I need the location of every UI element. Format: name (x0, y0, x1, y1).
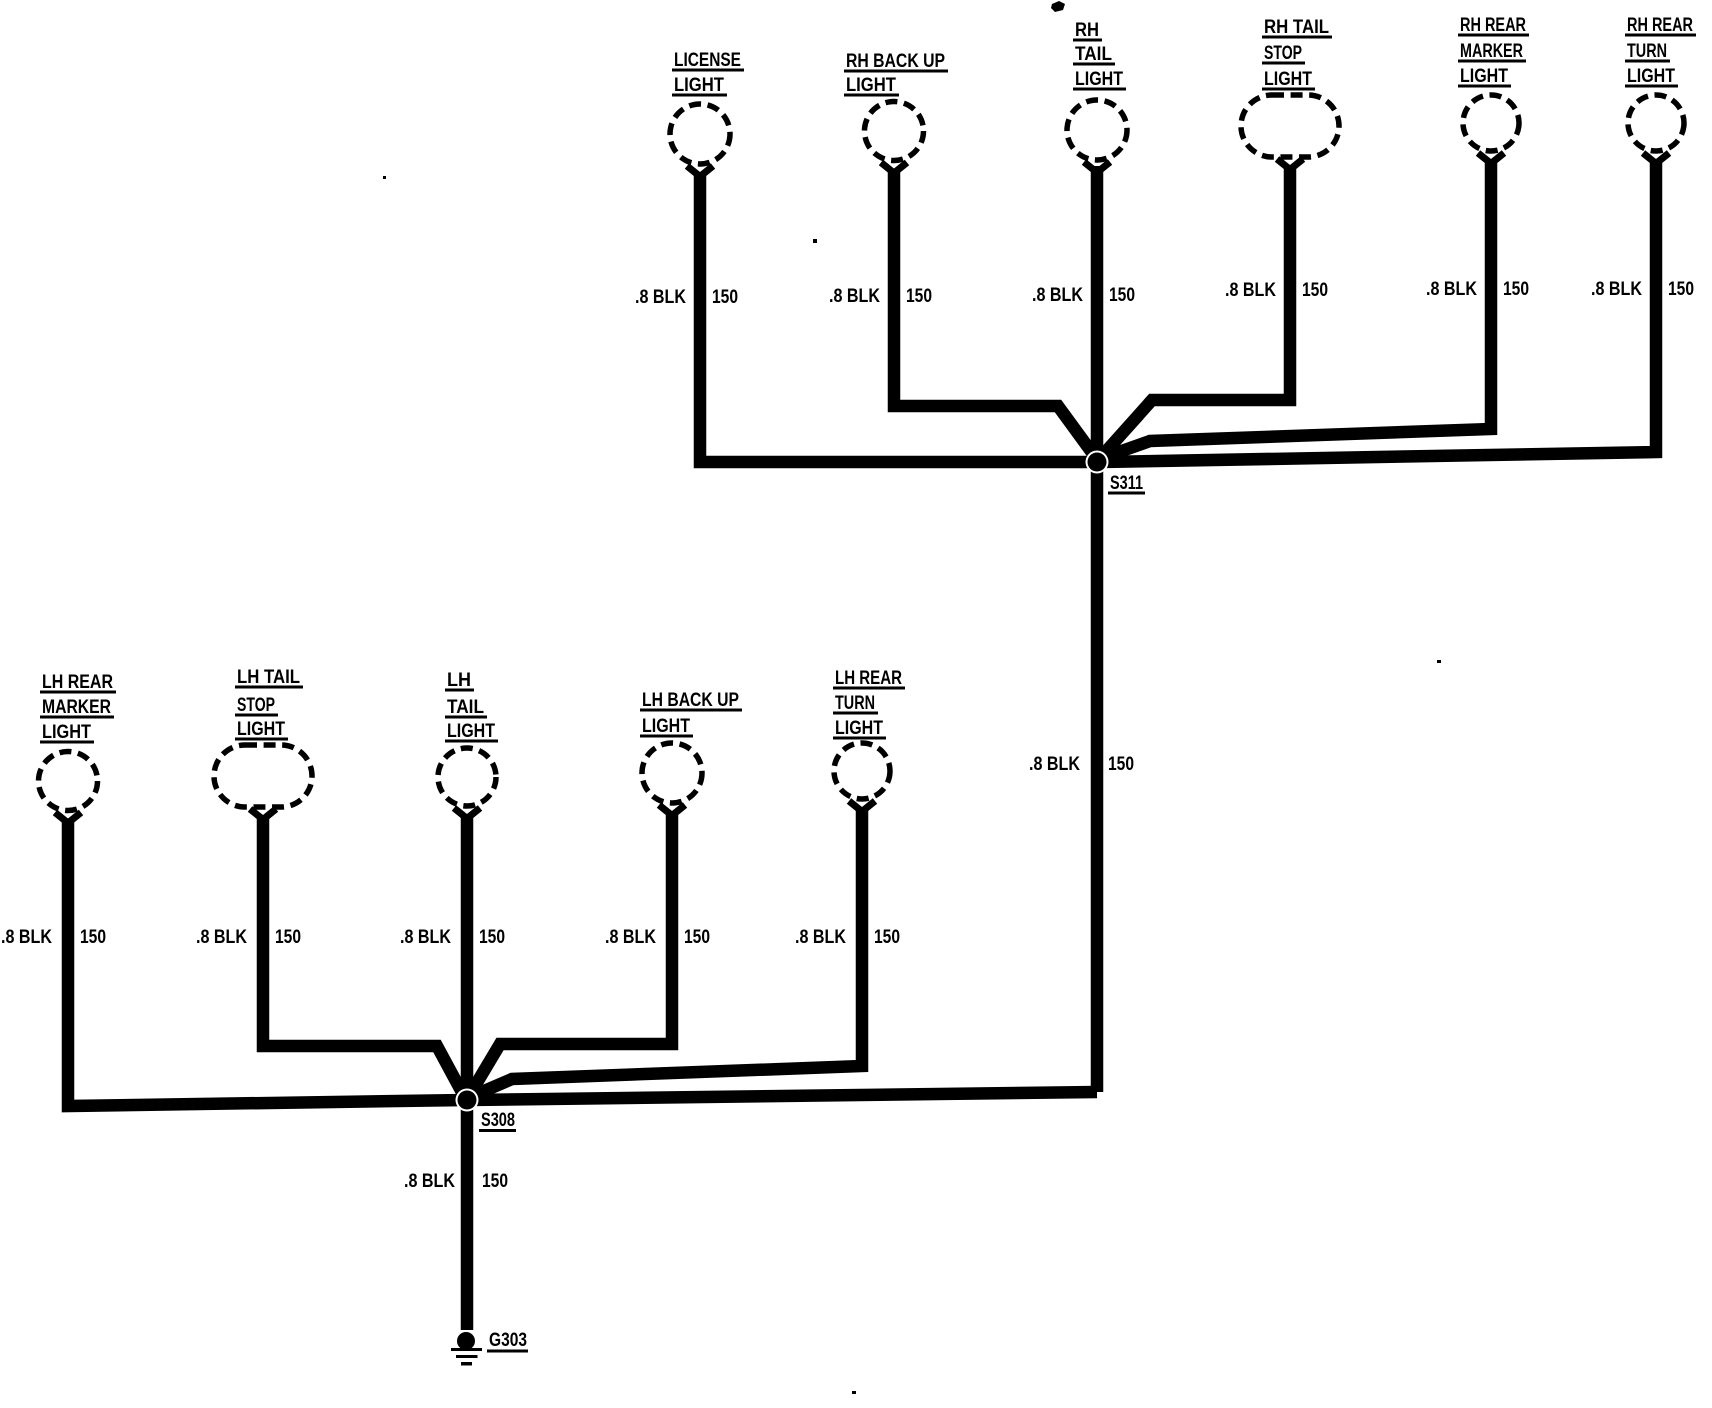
svg-text:LIGHT: LIGHT (642, 716, 690, 737)
svg-text:LIGHT: LIGHT (674, 75, 724, 96)
wire LH tail stop light to S308 (263, 817, 464, 1096)
svg-text:LICENSE: LICENSE (674, 50, 741, 71)
svg-text:.8 BLK: .8 BLK (1, 927, 52, 948)
svg-text:RH: RH (1075, 20, 1099, 41)
svg-text:LH: LH (447, 670, 471, 691)
svg-text:150: 150 (906, 286, 932, 307)
svg-text:.8 BLK: .8 BLK (1426, 279, 1477, 300)
svg-text:RH REAR: RH REAR (1460, 15, 1526, 36)
wire RH tail light through S311 down to S308 bus (1091, 166, 1104, 1092)
wire LH rear marker light to S308 (left bus) (68, 819, 466, 1106)
wire LH tail light through S308 to ground (461, 816, 474, 1330)
svg-text:G303: G303 (489, 1330, 527, 1351)
svg-text:LH BACK UP: LH BACK UP (642, 690, 739, 711)
speck (1051, 1, 1065, 12)
lamp RH REAR TURN LIGHT (1625, 15, 1696, 164)
svg-text:LH TAIL: LH TAIL (237, 667, 300, 688)
wire RH tail stop light to S311 (1101, 167, 1290, 457)
svg-text:RH BACK UP: RH BACK UP (846, 51, 945, 72)
svg-text:150: 150 (1108, 754, 1134, 775)
svg-text:150: 150 (712, 287, 738, 308)
svg-text:.8 BLK: .8 BLK (795, 927, 846, 948)
svg-text:.8 BLK: .8 BLK (635, 287, 686, 308)
svg-text:S308: S308 (481, 1110, 515, 1131)
ground G303 (451, 1330, 528, 1366)
wire RH back up light to S311 (894, 170, 1096, 458)
lamp LICENSE LIGHT (670, 50, 744, 177)
wire label .8 BLK 150 at x=1097 (1032, 285, 1135, 306)
svg-text:TURN: TURN (1627, 41, 1667, 62)
lamp LH REAR TURN LIGHT (833, 668, 905, 812)
svg-text:LIGHT: LIGHT (846, 75, 896, 96)
svg-text:150: 150 (1302, 280, 1328, 301)
svg-text:RH TAIL: RH TAIL (1264, 17, 1329, 38)
svg-text:.8 BLK: .8 BLK (1029, 754, 1080, 775)
wire label .8 BLK 150 at x=1290 (1225, 280, 1328, 301)
wire label .8 BLK 150 at x=672 (605, 927, 710, 948)
svg-text:MARKER: MARKER (42, 697, 111, 718)
wire RH rear marker light to S311 (1102, 163, 1491, 458)
wire label .8 BLK 150 at x=263 (196, 927, 301, 948)
svg-text:150: 150 (479, 927, 505, 948)
wire label .8 BLK 150 at x=1097 (1029, 754, 1134, 775)
svg-text:.8 BLK: .8 BLK (1591, 279, 1642, 300)
svg-text:.8 BLK: .8 BLK (400, 927, 451, 948)
wire RH rear turn light to S311 (right bus) (1101, 163, 1656, 462)
svg-text:150: 150 (874, 927, 900, 948)
svg-text:150: 150 (1503, 279, 1529, 300)
wire label .8 BLK 150 at x=862 (795, 927, 900, 948)
wire label .8 BLK 150 at x=1656 (1591, 279, 1694, 300)
wire label .8 BLK 150 at x=68 (1, 927, 106, 948)
svg-text:LH REAR: LH REAR (835, 668, 902, 689)
svg-text:TAIL: TAIL (447, 697, 484, 718)
svg-text:MARKER: MARKER (1460, 41, 1523, 62)
lamp LH TAIL STOP LIGHT (214, 667, 312, 820)
svg-text:.8 BLK: .8 BLK (1225, 280, 1276, 301)
wire license light to S311 (left bus) (700, 172, 1091, 462)
svg-text:150: 150 (684, 927, 710, 948)
wire label .8 BLK 150 at x=467 (404, 1171, 508, 1192)
wire label .8 BLK 150 at x=1491 (1426, 279, 1529, 300)
svg-text:.8 BLK: .8 BLK (605, 927, 656, 948)
svg-text:LH REAR: LH REAR (42, 672, 113, 693)
svg-text:.8 BLK: .8 BLK (829, 286, 880, 307)
wire label .8 BLK 150 at x=700 (635, 287, 738, 308)
lamp RH BACK UP LIGHT (844, 51, 948, 173)
svg-text:.8 BLK: .8 BLK (196, 927, 247, 948)
wire label .8 BLK 150 at x=894 (829, 286, 932, 307)
svg-text:TAIL: TAIL (1075, 44, 1112, 65)
svg-text:150: 150 (275, 927, 301, 948)
svg-text:LIGHT: LIGHT (1264, 69, 1312, 90)
svg-text:LIGHT: LIGHT (447, 721, 495, 742)
svg-text:150: 150 (482, 1171, 508, 1192)
svg-text:TURN: TURN (835, 693, 875, 714)
svg-text:STOP: STOP (1264, 43, 1302, 64)
splice S308 (456, 1089, 517, 1133)
lamp LH BACK UP LIGHT (640, 690, 742, 816)
splice S311 (1086, 451, 1146, 495)
wire S311 bus to S308 (right bottom bus) (468, 1092, 1097, 1100)
svg-text:LIGHT: LIGHT (1627, 66, 1675, 87)
wire LH back up light to S308 (469, 813, 672, 1096)
svg-text:S311: S311 (1110, 473, 1143, 494)
lamp LH TAIL LIGHT (438, 670, 498, 819)
svg-text:LIGHT: LIGHT (835, 718, 883, 739)
svg-text:150: 150 (80, 927, 106, 948)
svg-text:LIGHT: LIGHT (1075, 69, 1123, 90)
lamp RH REAR MARKER LIGHT (1458, 15, 1529, 164)
svg-text:.8 BLK: .8 BLK (1032, 285, 1083, 306)
svg-text:.8 BLK: .8 BLK (404, 1171, 455, 1192)
lamp RH TAIL STOP LIGHT (1241, 17, 1339, 170)
svg-text:LIGHT: LIGHT (1460, 66, 1508, 87)
wire label .8 BLK 150 at x=467 (400, 927, 505, 948)
svg-text:150: 150 (1668, 279, 1694, 300)
svg-text:RH REAR: RH REAR (1627, 15, 1693, 36)
lamp RH TAIL LIGHT (1067, 20, 1127, 173)
svg-text:LIGHT: LIGHT (237, 719, 285, 740)
svg-text:STOP: STOP (237, 695, 275, 716)
lamp LH REAR MARKER LIGHT (39, 672, 117, 823)
svg-text:150: 150 (1109, 285, 1135, 306)
wire LH rear turn light to S308 (470, 809, 862, 1097)
svg-text:LIGHT: LIGHT (42, 722, 91, 743)
